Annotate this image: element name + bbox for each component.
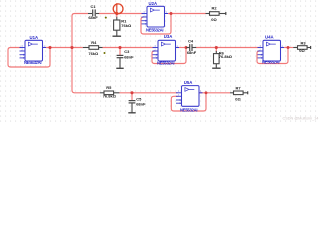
svg-text:R5: R5: [106, 85, 112, 90]
resistor R5: [100, 85, 120, 98]
wire: C3 stub from mid row: [119, 48, 121, 56]
junction: U2A output node: [170, 12, 173, 15]
wire: R4 to U3A input: [102, 47, 154, 49]
svg-text:NE5532AI: NE5532AI: [157, 60, 174, 65]
current probe XCP1: [113, 3, 123, 14]
net dot near C1: [105, 17, 107, 19]
svg-text:68nF: 68nF: [187, 50, 197, 55]
svg-text:R4: R4: [91, 40, 97, 45]
svg-text:U4A: U4A: [265, 35, 274, 40]
svg-text:NE5532AI: NE5532AI: [262, 59, 279, 64]
capacitor C5 (shunt to ground): [129, 97, 146, 113]
junction: U3A output node: [185, 46, 188, 49]
ground (R6): [212, 67, 220, 69]
svg-text:U5A: U5A: [184, 80, 193, 85]
svg-text:76kΩ: 76kΩ: [121, 23, 132, 28]
junction: U4A output node: [287, 46, 290, 49]
wire: U4A output to R3: [281, 47, 293, 49]
svg-text:76.8kΩ: 76.8kΩ: [219, 54, 233, 59]
wire: top row C1 to U2A input: [99, 13, 143, 15]
wire: U3A feedback loop: [152, 48, 186, 64]
svg-text:C1: C1: [90, 4, 96, 9]
svg-text:0Ω: 0Ω: [211, 17, 217, 22]
junction: R6 node on mid row: [215, 46, 218, 49]
svg-text:0Ω: 0Ω: [235, 96, 241, 101]
capacitor C3 (shunt to ground): [117, 49, 134, 68]
svg-text:76.8kΩ: 76.8kΩ: [103, 93, 117, 98]
resistor R1 (to ground): [114, 17, 132, 36]
wire: U2A feedback loop: [141, 14, 171, 35]
capacitor C1: [88, 4, 99, 20]
resistor R7 (0 ohm output): [230, 85, 248, 101]
junction: C5 node on bottom row: [130, 91, 133, 94]
resistor R3 (0 ohm output): [293, 40, 310, 53]
resistor R4: [83, 40, 103, 56]
wire: U3A output to C4: [176, 47, 189, 49]
op-amp U2A: [142, 1, 169, 32]
capacitor C4: [186, 38, 196, 55]
svg-text:U1A: U1A: [30, 35, 39, 40]
ground (C3): [116, 67, 123, 69]
wire: U5A output to R7: [200, 92, 231, 94]
svg-text:U3A: U3A: [164, 34, 173, 39]
ground (C5): [128, 112, 135, 114]
svg-text:NE5532AI: NE5532AI: [146, 27, 163, 32]
junction: bus cross at x=72 mid row: [70, 46, 73, 49]
wire: C4 to U4A input: [196, 47, 259, 49]
wire: U1A output to R4 (mid row): [46, 47, 83, 49]
svg-text:U2A: U2A: [149, 1, 158, 6]
op-amp U1A: [20, 35, 47, 65]
resistor R2 (0 ohm output): [206, 6, 226, 23]
net dot near R4: [104, 52, 106, 54]
svg-text:76kΩ: 76kΩ: [88, 51, 99, 56]
op-amp U5A: [176, 80, 203, 113]
svg-text:R2: R2: [211, 6, 217, 11]
op-amp U3A: [153, 34, 180, 65]
ground (R1): [113, 35, 122, 37]
wire: probe/R1 stub on top row: [116, 14, 118, 18]
wire: C5 stub from bottom row: [131, 93, 133, 101]
wire: U1A feedback loop: [8, 48, 50, 68]
wire: U1A output node vertical bus x=72 from top row to bottom row: [72, 14, 100, 93]
svg-text:CSDN @Multisim_14: CSDN @Multisim_14: [283, 117, 319, 121]
wire: U5A feedback loop: [171, 93, 206, 111]
svg-text:68nF: 68nF: [124, 54, 134, 59]
junction: probe/R1 node on top row: [115, 12, 118, 15]
svg-text:NE5532AI: NE5532AI: [180, 108, 197, 113]
junction: U1A output node: [48, 46, 51, 49]
svg-text:0Ω: 0Ω: [299, 48, 305, 53]
watermark: [283, 117, 319, 121]
junction: U5A output node: [205, 91, 208, 94]
svg-text:68nF: 68nF: [88, 15, 98, 20]
wire: U2A output to R2: [168, 13, 206, 15]
svg-text:R7: R7: [235, 85, 241, 90]
svg-text:C4: C4: [188, 38, 194, 43]
wire: U4A feedback loop: [257, 48, 288, 64]
resistor R6 (to ground): [214, 50, 233, 68]
svg-text:R3: R3: [300, 40, 306, 45]
op-amp U4A: [258, 35, 285, 65]
wire: R6 stub from mid row: [215, 48, 217, 52]
wire: R5 to U5A input (bottom row): [119, 92, 177, 94]
svg-text:NE5532AI: NE5532AI: [24, 60, 41, 65]
junction: C3 node on mid row: [118, 46, 121, 49]
svg-text:68nF: 68nF: [136, 101, 146, 106]
